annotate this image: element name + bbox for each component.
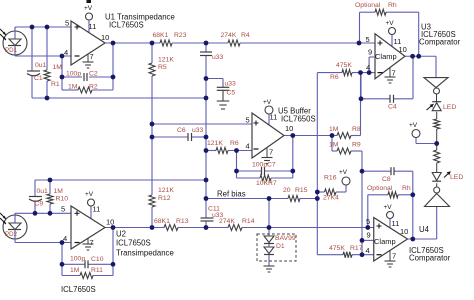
wire C4 left leg — [360, 73, 362, 99]
wire C9 bottom lead — [34, 201, 36, 214]
junction C4 left — [359, 96, 364, 101]
label U2 pin 10 — [106, 218, 114, 227]
wire C11 top lead — [205, 199, 207, 219]
label R8 (U3) — [330, 74, 339, 81]
svg-text:R23: R23 — [174, 32, 187, 39]
resistor R9 1M — [337, 148, 351, 154]
junction C10 left — [60, 262, 65, 267]
svg-text:ICL7650S: ICL7650S — [109, 21, 144, 30]
wire R2 right lead — [92, 89, 113, 91]
resistor R8 1M — [337, 133, 351, 139]
label PD1 — [5, 47, 18, 54]
resistor LED upper — [434, 119, 440, 129]
diode D1b BAV99 — [264, 247, 274, 255]
label U1 pin 5 — [65, 19, 69, 28]
wire C3 bottom lead — [205, 56, 207, 79]
wire C8 right leg down — [412, 171, 414, 239]
junction R1 top — [45, 25, 50, 30]
capacitor C2 — [84, 73, 87, 81]
svg-text:C5: C5 — [227, 90, 236, 97]
wire R8(1M) right segment — [351, 135, 361, 137]
svg-text:100p: 100p — [252, 162, 267, 169]
svg-text:R2: R2 — [89, 84, 98, 91]
svg-text:121K: 121K — [158, 187, 174, 194]
wire +V mid lead — [415, 138, 417, 144]
label C5 value u33 — [225, 81, 237, 88]
label R9 value — [329, 142, 339, 149]
label R7 value 10K — [256, 180, 269, 187]
label U4 pin 9 — [367, 231, 371, 240]
resistor R15 — [288, 196, 300, 202]
wire Rh(U4) left leg — [367, 195, 369, 228]
svg-text:10K: 10K — [256, 180, 269, 187]
label C1 value 0u1 — [35, 62, 47, 69]
capacitor C6 — [188, 133, 192, 141]
wire C7 right segment — [265, 170, 293, 172]
wire U1 output net y43 (to R23) — [105, 42, 160, 44]
capacitor C1 — [27, 71, 40, 76]
junction C6 right — [204, 135, 209, 140]
label U1 name — [105, 13, 175, 22]
wire R5 top lead — [151, 43, 153, 63]
wire C6 left segment — [152, 136, 188, 138]
label U4 pin 7 — [392, 252, 396, 261]
junction R9 tap — [330, 133, 335, 138]
svg-text:7: 7 — [90, 52, 94, 61]
svg-text:1M: 1M — [53, 64, 63, 71]
label C4 — [388, 104, 397, 111]
svg-text:C2: C2 — [89, 71, 98, 78]
label U1 pin 11 — [89, 22, 97, 31]
label U3 pin 9 — [368, 48, 372, 57]
wire C5 tap — [206, 78, 223, 80]
svg-text:+V: +V — [339, 169, 348, 176]
svg-text:R5: R5 — [158, 64, 167, 71]
label Optional (U4) — [367, 185, 393, 192]
wire LED1 top lead — [436, 94, 438, 102]
junction U3 pin4 R8leg — [358, 70, 363, 75]
label R4 value — [221, 32, 237, 39]
svg-text:+V: +V — [263, 99, 272, 106]
wire U5 output y135.5 — [284, 135, 337, 137]
svg-text:Optional: Optional — [355, 2, 381, 9]
wire R9 left lead — [332, 150, 337, 152]
resistor R16 — [325, 189, 337, 195]
svg-text:1M: 1M — [329, 142, 339, 149]
svg-text:68K1: 68K1 — [153, 32, 169, 39]
junction U5 pin4 R6 — [234, 148, 239, 153]
label U4 type — [409, 254, 451, 263]
junction U3 out Rh — [416, 54, 421, 59]
label U4 pin 4 — [366, 246, 370, 255]
label R4 — [241, 32, 250, 39]
+V terminal U5 (pin 11) — [265, 106, 273, 114]
svg-text:C6: C6 — [177, 127, 186, 134]
junction bias R15 right — [315, 196, 320, 201]
wire U3 output drop to indicator — [435, 56, 437, 77]
label U5 pin 4 — [246, 142, 250, 151]
svg-text:R15: R15 — [295, 187, 308, 194]
label R1 value 1M — [53, 64, 63, 71]
svg-text:ICL7650S: ICL7650S — [116, 239, 151, 248]
label U4 part — [409, 246, 444, 255]
junction U1 output feedback — [111, 41, 116, 46]
svg-text:5: 5 — [65, 19, 69, 28]
label R13 — [176, 218, 189, 225]
label R14 value — [219, 218, 235, 225]
op-amp U5 — [252, 113, 284, 158]
svg-text:1M: 1M — [70, 267, 80, 274]
wire R5 bottom / averaging spine upper — [151, 76, 153, 195]
junction R16 tap — [315, 190, 320, 195]
label +V U3 — [386, 20, 395, 27]
op-amp U4 — [374, 218, 408, 262]
label U2 part — [116, 239, 151, 248]
svg-text:PD1: PD1 — [5, 47, 18, 54]
wire R23 to C3 node — [172, 42, 206, 44]
svg-text:27K4: 27K4 — [323, 195, 339, 202]
wire 475K R8 left segment — [317, 72, 342, 74]
svg-text:C8: C8 — [382, 176, 391, 183]
label R5 value — [158, 57, 174, 64]
svg-text:5: 5 — [366, 35, 370, 44]
svg-text:7: 7 — [392, 69, 396, 78]
svg-text:Transimpedance: Transimpedance — [116, 249, 174, 258]
D1 package box — [257, 234, 296, 261]
label R12 value — [158, 187, 174, 194]
label U5 part — [281, 115, 316, 124]
svg-text:274K: 274K — [219, 218, 235, 225]
label C1 — [34, 75, 43, 82]
svg-text:11: 11 — [93, 205, 101, 214]
junction R10 top — [48, 178, 53, 183]
wire U1 -input net (PD1 cathode to pin 4) — [15, 55, 71, 57]
label U1 pin 4 — [64, 48, 68, 57]
ground U5 pin7 — [262, 148, 273, 164]
wire C8 right segment — [394, 170, 413, 172]
label U3 name — [421, 23, 431, 32]
wire C10 right segment — [88, 263, 113, 265]
svg-text:R6: R6 — [330, 74, 339, 81]
label Rh (U3) — [388, 2, 397, 9]
junction C5 tee — [204, 76, 209, 81]
label D1 — [276, 243, 285, 250]
svg-text:R1: R1 — [51, 81, 60, 88]
junction U5 out fb — [290, 133, 295, 138]
capacitor C7 — [262, 167, 265, 175]
svg-text:100p: 100p — [66, 71, 81, 78]
wire R2 left lead — [62, 89, 78, 91]
label U5 pin 5 — [246, 116, 250, 125]
wire C11 node to R14 — [206, 227, 228, 229]
wire U4 pin11 stub — [389, 219, 391, 228]
svg-text:20: 20 — [283, 187, 291, 194]
junction C5 node y98 — [204, 96, 209, 101]
wire 475K R8 to U3 pin4 — [352, 72, 375, 74]
LED D2 (upper) — [432, 102, 441, 111]
svg-text:C4: C4 — [388, 104, 397, 111]
junction U2 output feedback — [111, 225, 116, 230]
label LED lower — [450, 174, 463, 181]
label U5 name — [278, 107, 311, 116]
wire R12 bottom lead — [151, 207, 153, 228]
svg-text:+V: +V — [85, 191, 94, 198]
svg-text:Ref bias: Ref bias — [217, 190, 246, 199]
junction R12 bottom — [150, 225, 155, 230]
svg-text:R17: R17 — [350, 245, 363, 252]
label U3 part — [421, 30, 456, 39]
resistor R12 — [149, 195, 155, 207]
label C2 — [89, 71, 98, 78]
ground U1 pin7 — [83, 54, 94, 68]
wire R7 left lead — [237, 177, 261, 179]
svg-text:4: 4 — [64, 48, 68, 57]
wire C6 right segment — [192, 136, 207, 138]
+V terminal U2 (pin 11) — [88, 199, 95, 206]
label +V LED node — [409, 122, 418, 129]
svg-text:u33: u33 — [192, 127, 204, 134]
svg-text:+V: +V — [386, 20, 395, 27]
svg-text:LED: LED — [443, 104, 456, 111]
label U5 pin 11 — [270, 113, 278, 122]
svg-text:u33: u33 — [225, 81, 237, 88]
junction C10 right — [111, 262, 116, 267]
label U4 Clamp — [374, 237, 396, 246]
label R8 — [352, 126, 361, 133]
label C9 — [35, 201, 44, 208]
svg-text:4: 4 — [63, 234, 67, 243]
junction LED +V node — [434, 141, 439, 146]
wire indicator2 to U4 output — [436, 207, 438, 240]
resistor R23 — [160, 40, 172, 46]
label R16 — [324, 175, 337, 182]
wire node to R2nd — [436, 144, 438, 151]
label U4 pin 10 — [400, 227, 408, 236]
label C3 value u33 — [212, 54, 224, 61]
wire PD1 top lead corner — [14, 27, 16, 31]
wire R17 to U4 pin4 — [352, 254, 374, 256]
svg-text:10: 10 — [101, 33, 109, 42]
ground U4 pin7 — [385, 250, 396, 267]
svg-text:R11: R11 — [91, 267, 103, 274]
label C10 — [91, 256, 104, 263]
ground U3 pin7 — [385, 68, 396, 84]
label R7 — [268, 180, 277, 187]
label C6 value u33 — [192, 127, 204, 134]
wire U4 output — [408, 238, 437, 240]
wire Rh(U4) right segment — [398, 194, 413, 196]
wire R to +V node — [436, 129, 438, 144]
label U2 type — [116, 249, 174, 258]
label R6 — [230, 140, 239, 147]
junction R1 bottom — [45, 96, 50, 101]
svg-text:U4: U4 — [419, 225, 430, 234]
wire R6 left lead — [206, 150, 216, 152]
label Optional (U3) — [355, 2, 381, 9]
wire R7 loop left leg — [236, 171, 238, 178]
wire spine x206 (C5 node to C11) — [205, 79, 207, 199]
wire x362 pin9 to pin4 — [361, 240, 363, 254]
svg-text:Comparator: Comparator — [419, 38, 461, 47]
junction C7 right — [290, 169, 295, 174]
wire R7 loop right leg — [292, 171, 294, 178]
svg-text:10: 10 — [285, 124, 293, 133]
svg-text:C1: C1 — [34, 75, 43, 82]
label U1 pin 7 — [90, 52, 94, 61]
ground U2 pin7 — [83, 238, 94, 250]
svg-text:R16: R16 — [324, 175, 337, 182]
junction U4 out — [410, 237, 415, 242]
wire R9 right segment — [351, 150, 362, 152]
wire U3 clamp stub vertical — [368, 57, 370, 73]
svg-text:R8: R8 — [352, 126, 361, 133]
label U3 type — [419, 38, 461, 47]
svg-text:R13: R13 — [176, 218, 189, 225]
resistor Rh (U4 hysteresis) — [388, 192, 398, 198]
svg-text:C7: C7 — [267, 162, 276, 169]
label U4 name — [419, 225, 430, 234]
wire C4 right segment — [394, 98, 414, 100]
wire C3 top lead — [205, 43, 207, 52]
wire Rh(U3) right leg — [418, 12, 420, 56]
junction C2 left — [60, 75, 65, 80]
LED D2 arrow — [427, 104, 434, 110]
wire C8 left segment — [362, 170, 391, 172]
label U5 pin 7 — [269, 148, 273, 157]
resistor R1 — [44, 70, 50, 81]
wire R9 right leg down to U4 -input — [361, 151, 363, 240]
photodiode PD1 — [0, 27, 27, 56]
label U1 pin 10 — [101, 33, 109, 42]
svg-text:9: 9 — [367, 231, 371, 240]
junction bias spine — [204, 196, 209, 201]
svg-text:R14: R14 — [242, 218, 255, 225]
wire Rh(U3) top segment left — [360, 11, 376, 13]
svg-text:ICL7650S: ICL7650S — [61, 285, 96, 294]
wire R8 right leg up to U3 -input — [360, 73, 362, 136]
label R14 — [242, 218, 255, 225]
svg-text:Optional: Optional — [367, 185, 393, 192]
junction R6 left — [204, 148, 209, 153]
label U4 pin 11 — [392, 219, 400, 228]
photodiode PD2 — [0, 213, 27, 243]
wire U2 output net y227.5 (to R13) — [105, 227, 164, 229]
label +V R16 — [339, 169, 348, 176]
svg-text:1M: 1M — [329, 126, 339, 133]
wire R10 top lead — [49, 180, 51, 194]
svg-text:Rh: Rh — [388, 2, 397, 9]
svg-text:Clamp: Clamp — [374, 237, 396, 246]
junction D1 output rail — [267, 225, 272, 230]
junction Rh U4 right — [410, 192, 415, 197]
label U2 pin 11 — [93, 205, 101, 214]
junction Rh U3 pin5 — [357, 41, 362, 46]
svg-text:+V: +V — [384, 204, 393, 211]
wire C11 bottom lead — [205, 221, 207, 228]
label R10 — [56, 196, 69, 203]
label R9 — [352, 142, 361, 149]
label PD2 — [5, 231, 18, 238]
label C10 value 100p — [70, 256, 85, 263]
op-amp U1 — [71, 21, 105, 65]
label ICL7650S bottom — [61, 285, 96, 294]
svg-text:R12: R12 — [158, 195, 171, 202]
resistor LED lower — [434, 150, 440, 163]
junction U5 pin5 spine — [150, 122, 155, 127]
diode D1a BAV99 — [264, 236, 274, 244]
resistor R7 — [260, 175, 271, 181]
label Rh (U4) — [402, 185, 411, 192]
wire C4 left segment — [361, 98, 390, 100]
wire U1 pin11 stub — [88, 20, 90, 33]
wire U4 pin9 wire — [362, 239, 374, 241]
resistor R11 — [80, 273, 93, 279]
label U1 part — [109, 21, 144, 30]
label +V U4 — [384, 204, 393, 211]
svg-text:121K: 121K — [158, 57, 174, 64]
label U3 pin 7 — [392, 69, 396, 78]
svg-text:+V: +V — [84, 5, 93, 12]
svg-text:68K1: 68K1 — [154, 218, 170, 225]
label R2 — [89, 84, 98, 91]
label R17 value 475K — [329, 245, 345, 252]
svg-text:4: 4 — [246, 142, 250, 151]
wire C4 right leg — [412, 56, 414, 99]
label R11 value 1M — [70, 267, 80, 274]
label U3 pin 10 — [399, 45, 407, 54]
wire PD2 top corner — [14, 213, 16, 216]
wire R2nd to LED2 — [436, 163, 438, 173]
label C7 — [267, 162, 276, 169]
label +V U5 — [263, 99, 272, 106]
wire +V drop to R16 — [345, 185, 347, 192]
label C8 — [382, 176, 391, 183]
+V terminal U1 (pin 11) — [86, 0, 93, 20]
wire R10 bottom lead — [49, 204, 51, 213]
label C7 value 100p — [252, 162, 267, 169]
junction C3 top — [204, 41, 209, 46]
svg-text:U2: U2 — [116, 230, 126, 239]
wire Rh(U3) left leg — [359, 12, 361, 43]
label R12 — [158, 195, 171, 202]
svg-text:Rh: Rh — [402, 185, 411, 192]
label U2 pin 5 — [61, 205, 65, 214]
wire C7 left segment — [237, 170, 262, 172]
wire R9 drop from output — [331, 136, 333, 152]
wire U3 clamp stub horizontal — [369, 56, 374, 58]
wire R13 to C11 node — [178, 227, 206, 229]
svg-text:0u1: 0u1 — [35, 62, 47, 69]
ground C5 — [217, 101, 230, 109]
svg-text:0u1: 0u1 — [37, 188, 49, 195]
wire U3 pin11 stub — [391, 35, 393, 47]
capacitor C9 — [29, 197, 42, 202]
junction C8 left — [360, 169, 365, 174]
resistor R17 — [343, 252, 352, 258]
wire bias rail y98 (C1/R1 to C5 node) — [32, 97, 206, 99]
wire R6 to U5 pin4 — [228, 150, 252, 152]
wire R14 to U4 pin5 — [242, 227, 374, 229]
wire U5 feedback left leg upper — [236, 151, 238, 172]
capacitor C11 — [201, 218, 214, 221]
indicator triangle bottom — [425, 187, 450, 207]
svg-text:4: 4 — [366, 63, 370, 72]
capacitor C10 — [85, 260, 88, 268]
resistor R5 — [149, 63, 155, 76]
wire +V mid to node — [416, 143, 437, 145]
label C11 — [208, 206, 220, 213]
label C6 — [177, 127, 186, 134]
